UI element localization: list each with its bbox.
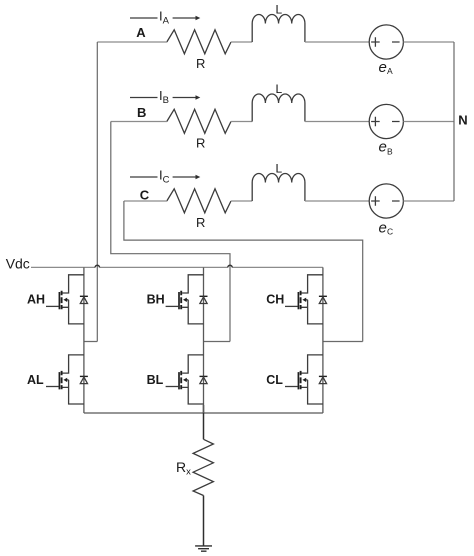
svg-text:BL: BL: [147, 373, 164, 387]
svg-text:C: C: [387, 227, 393, 237]
svg-text:R: R: [196, 136, 205, 151]
svg-text:AH: AH: [27, 293, 45, 307]
svg-text:B: B: [137, 105, 146, 120]
svg-text:e: e: [379, 59, 387, 76]
svg-text:N: N: [458, 113, 467, 128]
svg-text:CH: CH: [266, 293, 284, 307]
svg-text:A: A: [136, 25, 146, 40]
svg-text:e: e: [379, 220, 387, 237]
svg-text:BH: BH: [147, 293, 165, 307]
svg-text:B: B: [387, 147, 393, 157]
svg-text:e: e: [379, 139, 387, 156]
svg-text:CL: CL: [266, 373, 283, 387]
svg-text:L: L: [276, 162, 283, 176]
svg-text:L: L: [276, 82, 283, 96]
svg-text:A: A: [387, 66, 393, 76]
svg-text:AL: AL: [27, 373, 44, 387]
svg-text:R: R: [196, 56, 205, 71]
svg-text:Vdc: Vdc: [6, 256, 30, 272]
svg-text:L: L: [276, 3, 283, 17]
svg-text:R: R: [196, 215, 205, 230]
svg-text:C: C: [140, 188, 150, 203]
